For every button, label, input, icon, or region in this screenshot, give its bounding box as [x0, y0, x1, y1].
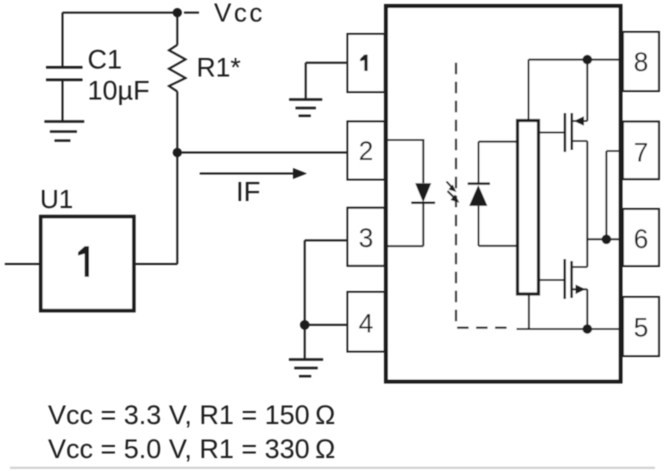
wire photodiode bottom to PV stack — [479, 206, 518, 246]
wire pin 6 — [587, 238, 623, 240]
wire LED cathode to pin 3 — [388, 203, 423, 246]
wire Q1 source down to Q2 drain — [586, 141, 588, 267]
wire junction down to U1 output — [176, 153, 178, 265]
wire Vcc top rail — [63, 12, 178, 14]
MOSFET Q1 (top) — [539, 60, 587, 152]
driver U1 — [41, 217, 134, 311]
scan artifact (bottom smudge) — [10, 467, 655, 469]
wire U1 output — [134, 263, 177, 265]
svg-text:R1*: R1* — [197, 53, 241, 83]
ground (C1) — [44, 122, 84, 141]
wire photodiode top to PV stack — [479, 142, 518, 184]
node R1/pin2 junction — [173, 148, 182, 157]
svg-text:2: 2 — [359, 136, 374, 166]
wire junction to ground — [304, 325, 306, 359]
pin 6 — [623, 209, 659, 266]
pin 1 — [348, 34, 385, 92]
node pin 8 rail junction — [583, 55, 593, 65]
pin 3 — [348, 208, 385, 266]
pin 2 — [348, 122, 385, 180]
IC package body — [386, 6, 621, 382]
svg-text:4: 4 — [359, 308, 374, 338]
node Vcc junction — [173, 8, 182, 17]
svg-text:3: 3 — [359, 223, 374, 253]
label 1 (driver) — [78, 246, 89, 276]
svg-text:10µF: 10µF — [88, 76, 150, 106]
wire pin 2 to LED anode — [388, 140, 423, 183]
svg-text:IF: IF — [236, 176, 260, 207]
pin 4 — [348, 292, 385, 352]
photodiode D2 (detector) — [468, 184, 490, 206]
svg-text:6: 6 — [634, 224, 649, 254]
svg-text:U1: U1 — [40, 184, 73, 214]
svg-text:Vcc = 3.3 V, R1 = 150 Ω: Vcc = 3.3 V, R1 = 150 Ω — [48, 400, 335, 430]
resistor R1 — [169, 13, 186, 153]
node pin3/pin4 junction — [300, 320, 310, 330]
svg-text:Vcc: Vcc — [214, 0, 265, 28]
light arrows — [447, 182, 460, 203]
current arrow IF — [200, 168, 307, 179]
photovoltaic stack — [518, 121, 539, 295]
pin 7 — [623, 122, 659, 180]
node pins 6/7 junction — [602, 235, 612, 245]
MOSFET Q2 (bottom) — [539, 259, 587, 299]
wire pin 1 to ground — [306, 63, 348, 99]
ground (pin 1) — [289, 100, 322, 116]
wire stack top to pin 8 rail — [529, 60, 623, 121]
wire pin 3 — [305, 240, 348, 325]
wire pin 4 — [305, 324, 348, 326]
capacitor C1 — [46, 13, 83, 121]
LED D1 (emitter) — [411, 183, 435, 203]
svg-text:5: 5 — [634, 313, 649, 343]
wire junction to pin 2 — [177, 152, 347, 154]
svg-text:Vcc = 5.0 V, R1 = 330 Ω: Vcc = 5.0 V, R1 = 330 Ω — [48, 434, 335, 464]
svg-text:7: 7 — [634, 138, 649, 168]
wire Q2 source to pin 5 rail — [586, 289, 588, 329]
wire U1 input — [5, 263, 41, 265]
wire stack bottom lead — [528, 294, 530, 329]
wire pin 7 — [606, 151, 623, 239]
wire Vcc stub — [184, 12, 199, 14]
svg-text:C1: C1 — [88, 45, 123, 75]
isolation boundary (dashed) — [456, 63, 511, 328]
svg-text:8: 8 — [634, 47, 649, 77]
node pin 5 rail junction — [583, 324, 593, 334]
ground (pins 3,4) — [289, 360, 323, 377]
pin 8 — [623, 32, 659, 91]
pin 5 — [623, 297, 659, 356]
wire pin 5 rail — [517, 328, 623, 330]
